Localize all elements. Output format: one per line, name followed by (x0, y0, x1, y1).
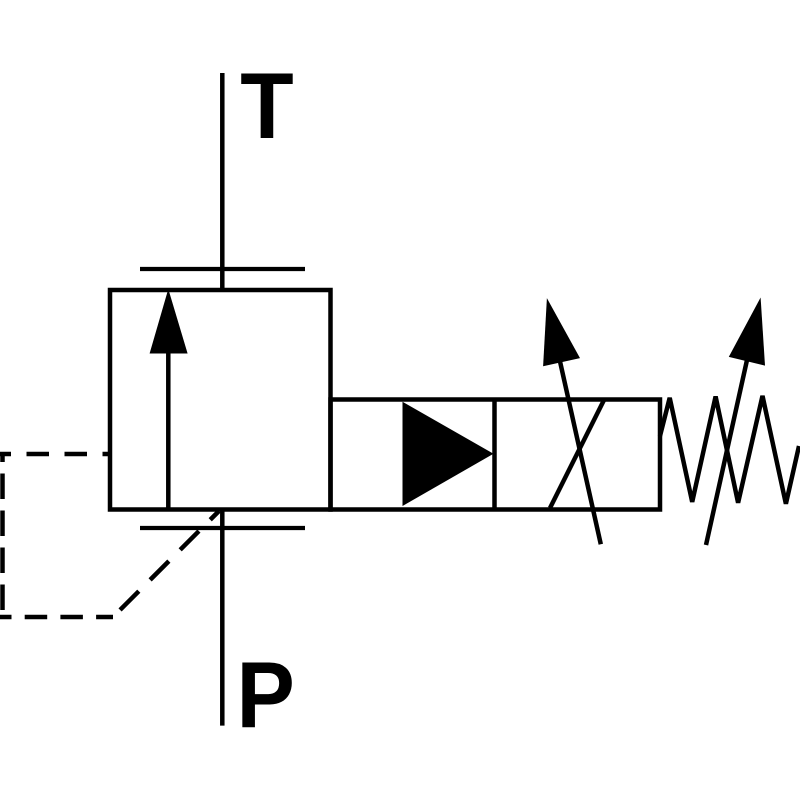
wire: P port line (220, 510, 225, 726)
wire: T port line (220, 73, 225, 290)
adjustment arrow 1 head (543, 298, 580, 366)
pilot amplifier triangle (403, 402, 494, 506)
pilot line dashed bottom segment (0, 615, 113, 620)
adjustment arrow 2 head (729, 298, 765, 366)
svg-text:P: P (237, 643, 295, 748)
pilot line dashed left segment (0, 454, 5, 617)
flow arrow shaft (166, 352, 171, 510)
adjustment arrow 1 shaft (553, 330, 601, 544)
pilot line dashed diagonal segment (113, 511, 219, 617)
actuator block divider (492, 400, 497, 510)
pilot line dashed top segment (0, 452, 110, 457)
actuator block box (331, 400, 661, 510)
spring (660, 396, 799, 504)
node: T port marker (140, 267, 305, 271)
adjustment arrow 2 shaft (spring adjuster) (706, 333, 753, 545)
proportional diagonal line (550, 400, 604, 508)
svg-text:T: T (240, 54, 293, 159)
valve main body box (110, 290, 331, 510)
flow arrow head (150, 289, 188, 354)
node: P port marker (140, 526, 305, 530)
